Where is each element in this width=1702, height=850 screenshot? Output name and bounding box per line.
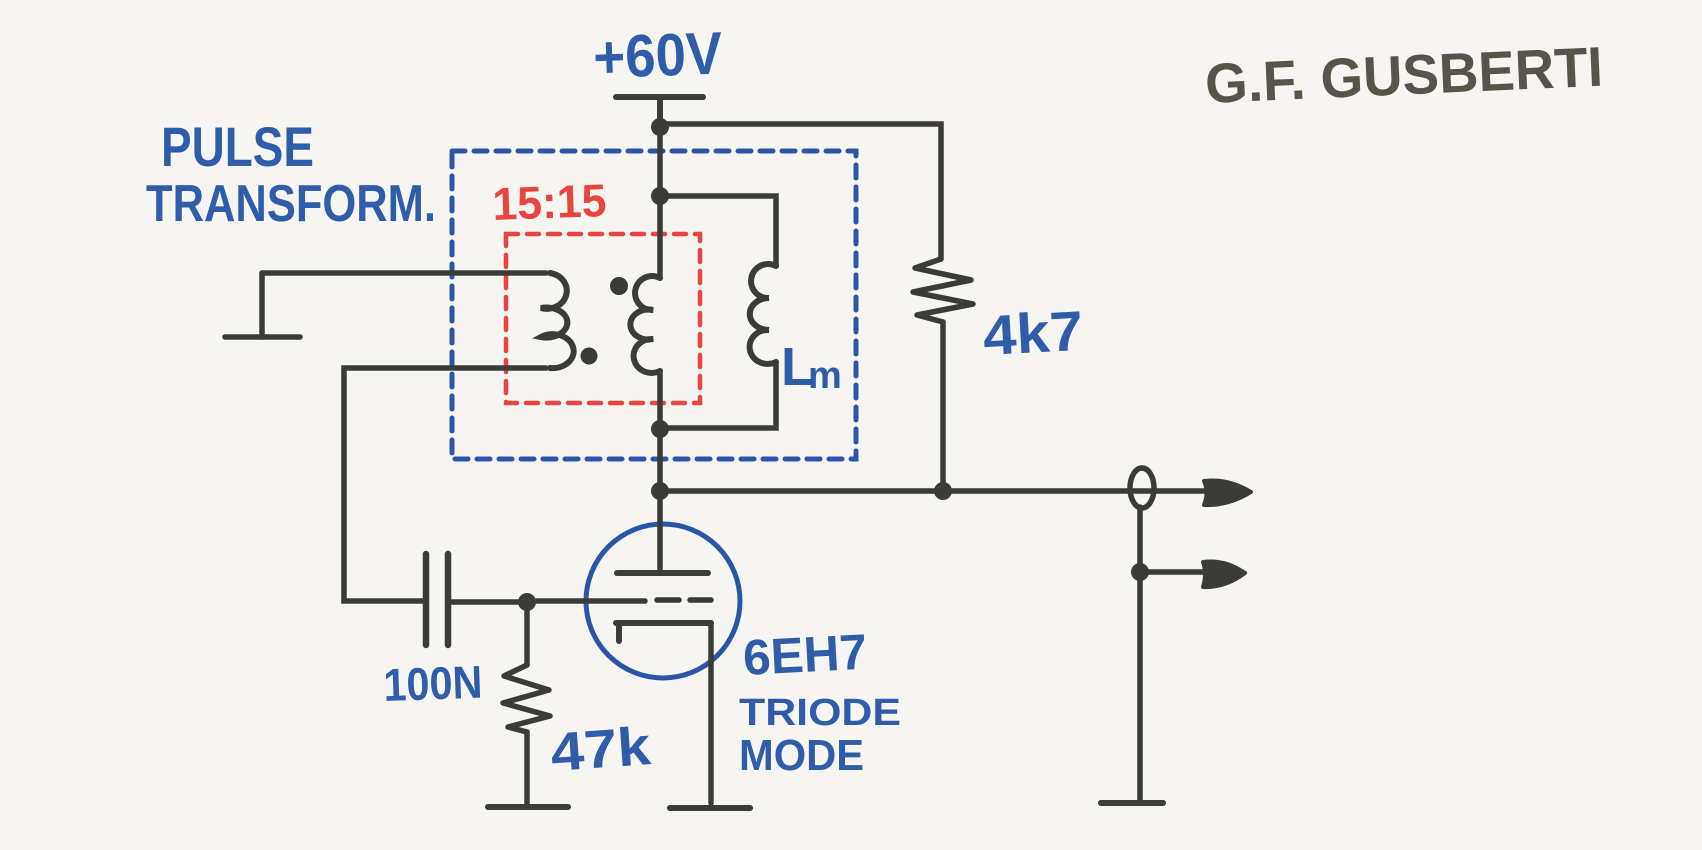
transformer secondary winding [630,276,660,373]
node at secondary bottom [651,420,669,438]
wire return branch vertical [1137,507,1143,800]
output arrow 1 [1204,480,1251,505]
ground right [1101,800,1163,806]
tube V1 envelope 6EH7 [586,524,740,678]
tube cathode [616,623,711,641]
node 4k7 bottom on output rail [934,482,952,500]
phase dot lower [581,348,598,365]
wire 4k7 bottom lead [940,322,946,491]
node grid junction [518,593,536,611]
wire input to primary top [262,270,546,276]
resistor 4k7 [913,259,973,322]
ground cathode [670,805,750,811]
pulse transformer label [146,115,436,233]
node anode/output junction [651,482,669,500]
capacitor C1 100N [426,554,448,645]
transformer primary winding [541,273,574,368]
inductor Lm [750,264,776,364]
pulse transformer outer boundary (blue dashed box) [452,151,856,459]
tube grid (dashed) [527,600,711,601]
wire Lm bottom lead [660,362,776,428]
tube anode plate [617,570,708,576]
phase dot upper [610,277,628,295]
wire 47k bottom lead [524,732,530,803]
wire cap to grid node [448,599,527,605]
output arrow 2 [1203,561,1245,587]
node at Lm top tap [651,187,669,205]
svg-text:TRIODE: TRIODE [739,692,901,734]
wire Lm top lead [660,196,776,266]
wire top rail from +60V node to 4k7 top [660,124,941,259]
svg-text:15:15: 15:15 [492,174,608,230]
wire secondary bottom to output node [657,371,663,491]
svg-text:+60V: +60V [592,20,723,91]
svg-text:100N: 100N [383,656,484,711]
+60V supply terminal bar [616,97,703,126]
svg-text:m: m [808,355,842,397]
transformer core boundary (red dashed box) [506,234,700,403]
wire to output arrow 2 [1140,569,1204,575]
svg-text:TRANSFORM.: TRANSFORM. [146,175,436,233]
wire primary bottom to coupling cap [344,368,546,601]
wire cathode lead [708,623,714,803]
inductor Lm label [781,337,842,397]
wire hop loop on output rail [1130,468,1154,508]
tube type label [739,624,901,780]
svg-text:4k7: 4k7 [981,299,1084,367]
ground 47k [488,804,568,810]
node J1 at +60V rail [651,118,669,136]
wire center line from supply through secondary [657,126,663,278]
input terminal stub [225,273,300,337]
wire anode lead [657,491,663,573]
svg-text:6EH7: 6EH7 [742,624,869,686]
wire 47k top lead [524,602,530,665]
svg-text:47k: 47k [549,716,654,783]
wire output rail [660,488,1207,494]
resistor 47k [503,665,550,732]
svg-text:PULSE: PULSE [161,115,314,178]
svg-text:MODE: MODE [739,731,864,780]
node return branch tap [1131,563,1149,581]
